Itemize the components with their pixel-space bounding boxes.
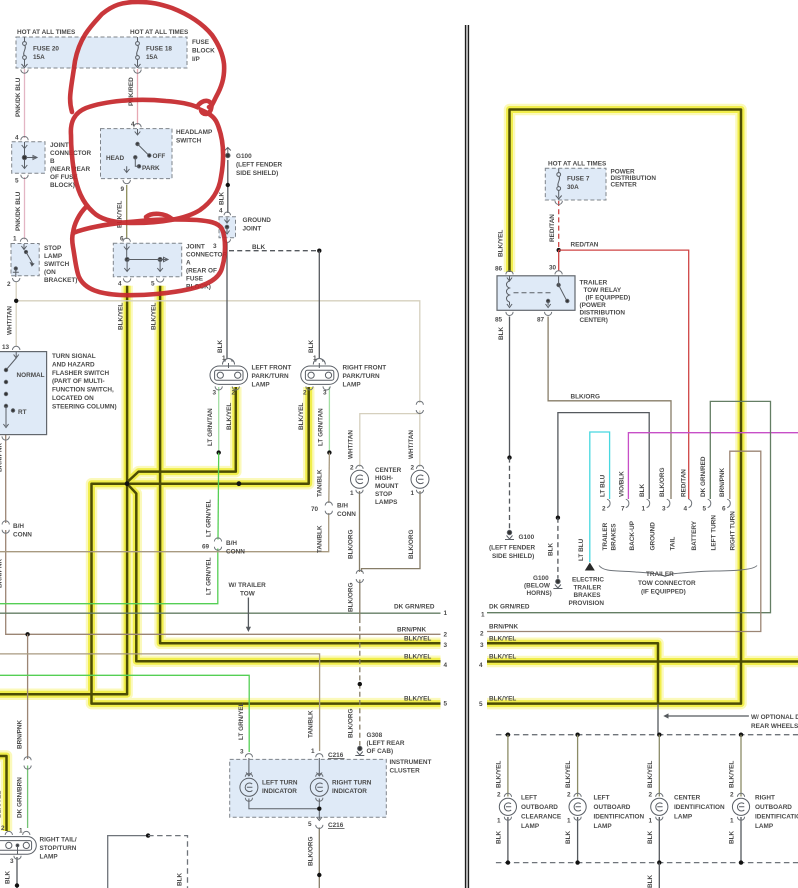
node bus taps	[506, 733, 510, 737]
wire PNK/RED fuse18 to headlamp switch	[137, 69, 139, 125]
svg-text:DK GRN/RED: DK GRN/RED	[394, 604, 435, 611]
svg-text:LAMP: LAMP	[674, 814, 693, 821]
wire tail lamp feed	[0, 756, 7, 831]
svg-text:LEFT: LEFT	[521, 795, 537, 802]
center high mount stop lamp left	[351, 465, 369, 493]
node RED/TAN junction	[557, 248, 561, 252]
svg-text:HEADLAMP: HEADLAMP	[176, 129, 213, 136]
svg-text:(NEAR REAR: (NEAR REAR	[50, 166, 91, 173]
svg-text:CONN: CONN	[13, 532, 32, 539]
svg-text:5: 5	[479, 701, 483, 708]
wire WHT/TAN stop lamp switch to turn signal switch	[15, 282, 17, 347]
svg-text:C216: C216	[328, 822, 344, 829]
wire BLK below marker lamps	[507, 817, 509, 863]
wire lamp bus bottom dashed	[496, 862, 798, 864]
svg-text:OUTBOARD: OUTBOARD	[521, 804, 558, 811]
fuse block I/P box	[16, 37, 187, 68]
svg-text:1: 1	[444, 610, 448, 617]
svg-text:LT GRN/TAN: LT GRN/TAN	[318, 408, 325, 446]
svg-text:INDICATOR: INDICATOR	[262, 788, 297, 795]
pin arc tail pin1	[23, 831, 30, 835]
svg-text:RED/TAN: RED/TAN	[549, 214, 556, 242]
svg-text:1: 1	[222, 355, 226, 362]
node	[556, 516, 560, 520]
svg-text:BLK: BLK	[548, 542, 555, 556]
red connector stroke down-left	[73, 207, 86, 233]
svg-text:AND HAZARD: AND HAZARD	[52, 361, 95, 368]
wire BLK dashed to G100 below horns	[557, 518, 559, 579]
wire BLK/ORG right CHMSL down and left	[362, 491, 421, 572]
svg-text:FUSE 20: FUSE 20	[33, 46, 59, 53]
G308 ground symbol	[355, 746, 364, 755]
svg-text:5: 5	[15, 178, 19, 185]
pin arc relay 85	[506, 312, 513, 316]
wire BLK dashed branch to right park lamp	[229, 250, 319, 252]
svg-text:PNK/DK BLU: PNK/DK BLU	[15, 77, 22, 117]
svg-text:LEFT TURN: LEFT TURN	[711, 515, 718, 551]
conn BLK/ORG inline	[356, 570, 363, 582]
svg-text:2: 2	[232, 390, 236, 397]
svg-text:LAMP: LAMP	[44, 253, 63, 260]
wire BLK trailer ground pin1	[558, 413, 649, 518]
svg-text:LAMPS: LAMPS	[375, 499, 398, 506]
svg-text:TAIL: TAIL	[670, 537, 677, 551]
node	[226, 183, 230, 187]
svg-text:LT BLU: LT BLU	[600, 474, 607, 497]
svg-text:FUSE: FUSE	[192, 39, 210, 46]
svg-text:SIDE SHIELD): SIDE SHIELD)	[236, 170, 278, 177]
svg-text:STOP: STOP	[44, 245, 62, 252]
svg-text:4: 4	[118, 281, 122, 288]
B/H conn 70	[325, 502, 332, 514]
svg-text:OFF: OFF	[153, 153, 166, 160]
wire LT GRN/TAN left park lamp pin3	[218, 387, 220, 453]
svg-text:3: 3	[662, 506, 666, 513]
svg-text:30: 30	[549, 265, 557, 272]
svg-text:CONN: CONN	[226, 548, 245, 555]
pin arc tail pin2	[5, 831, 12, 835]
wire BLK bottom left hook solid	[108, 836, 148, 888]
wire BLK/ORG left CHMSL down	[359, 491, 361, 572]
svg-text:RIGHT: RIGHT	[755, 795, 775, 802]
pin arc stop lamp top	[20, 238, 27, 242]
node bus taps bottom	[506, 860, 510, 864]
svg-text:RED/TAN: RED/TAN	[681, 469, 688, 497]
svg-text:STEERING COLUMN): STEERING COLUMN)	[52, 403, 117, 410]
svg-text:1: 1	[497, 818, 501, 825]
wire row3 right down to lamp bus	[487, 643, 658, 704]
svg-text:BLK/YEL: BLK/YEL	[226, 403, 233, 430]
svg-text:BLK/YEL: BLK/YEL	[404, 654, 431, 661]
svg-text:HORNS): HORNS)	[527, 590, 552, 597]
svg-text:BLK: BLK	[5, 870, 12, 884]
pin arc turn signal bottom	[2, 436, 9, 440]
svg-text:1: 1	[19, 828, 23, 835]
svg-text:3: 3	[240, 749, 244, 756]
wire BLK ground joint to left park lamp pin1	[226, 242, 228, 361]
wire RED/TAN to relay pin30	[558, 250, 560, 271]
svg-text:CENTER): CENTER)	[580, 317, 608, 324]
pin arc RF lamp pin1	[316, 358, 323, 362]
svg-text:(LEFT FENDER: (LEFT FENDER	[489, 545, 536, 552]
node	[507, 455, 511, 459]
svg-text:5: 5	[444, 701, 448, 708]
svg-text:FUSE: FUSE	[186, 276, 204, 283]
wire DK GRN/BRN to tail lamp pin1	[27, 766, 29, 829]
svg-text:G100: G100	[236, 153, 252, 160]
svg-text:BLK/ORG: BLK/ORG	[408, 530, 415, 559]
svg-text:TOW: TOW	[240, 590, 256, 597]
svg-text:NORMAL: NORMAL	[17, 372, 45, 379]
right tail/stop/turn lamp	[0, 837, 36, 855]
svg-text:IDENTIFICATION: IDENTIFICATION	[674, 804, 725, 811]
svg-text:(LEFT FENDER: (LEFT FENDER	[236, 161, 283, 168]
svg-text:IDENTIFICATIO: IDENTIFICATIO	[755, 814, 798, 821]
svg-text:BLK/ORG: BLK/ORG	[308, 837, 315, 866]
wire BLK/YEL thin stub row3 to lamp bus	[657, 704, 659, 735]
pin arc cluster pin5	[316, 825, 323, 829]
svg-text:BRN/PNK: BRN/PNK	[719, 468, 726, 497]
marker lamp left outboard clearance	[499, 793, 516, 820]
svg-text:BLK/YEL: BLK/YEL	[404, 636, 431, 643]
svg-text:BLK: BLK	[308, 339, 315, 353]
svg-text:BLK/YEL: BLK/YEL	[151, 303, 158, 330]
svg-text:RT: RT	[18, 409, 27, 416]
svg-text:LT GRN/TAN: LT GRN/TAN	[207, 408, 214, 446]
svg-text:TOW CONNECTOR: TOW CONNECTOR	[638, 580, 696, 587]
svg-text:(BELOW: (BELOW	[524, 583, 551, 590]
node cluster junction	[317, 807, 321, 811]
node splice	[217, 450, 221, 454]
pin arc turn signal top pin13	[13, 346, 20, 350]
node splice	[327, 450, 331, 454]
svg-text:BLK: BLK	[647, 874, 654, 888]
svg-text:BLOCK): BLOCK)	[50, 182, 75, 189]
svg-text:WHT/TAN: WHT/TAN	[408, 430, 415, 459]
svg-text:B/H: B/H	[337, 503, 348, 510]
svg-text:3: 3	[480, 642, 484, 649]
svg-text:INDICATOR: INDICATOR	[332, 788, 367, 795]
pin arc JC-A bottom pin5	[156, 278, 163, 282]
wire VIO/BLK back-up	[628, 433, 798, 499]
pin arc headlamp bottom pin9	[123, 180, 130, 184]
svg-text:2: 2	[649, 792, 653, 799]
wire LT BLU trailer brakes	[590, 432, 610, 562]
G100 below horns ground	[553, 579, 562, 588]
wire BLK down to right park lamp pin1	[318, 251, 320, 361]
svg-text:6: 6	[120, 236, 124, 243]
conn tail lamp inline	[24, 757, 31, 769]
svg-text:G308: G308	[367, 732, 383, 739]
svg-text:BLK/ORG: BLK/ORG	[571, 394, 600, 401]
pin arc relay 87	[545, 312, 552, 316]
wire TAN/BLK to instrument cluster pin1	[0, 654, 320, 751]
left turn indicator lamp	[240, 758, 319, 809]
svg-text:FLASHER SWITCH: FLASHER SWITCH	[52, 370, 110, 377]
wire BLK/ORG below conn to row1 then dashed to G308	[359, 580, 361, 619]
node	[15, 883, 19, 887]
svg-text:1: 1	[642, 506, 646, 513]
svg-text:STOP/TURN: STOP/TURN	[40, 845, 77, 852]
svg-text:BLK/YEL: BLK/YEL	[496, 761, 503, 788]
red loop middle around headlamp switch	[71, 100, 223, 223]
svg-text:LT GRN/YEL: LT GRN/YEL	[238, 702, 245, 740]
svg-text:85: 85	[495, 317, 503, 324]
svg-text:TAN/BLK: TAN/BLK	[317, 469, 324, 497]
svg-text:IDENTIFICATION: IDENTIFICATION	[594, 814, 645, 821]
svg-text:CONN: CONN	[337, 511, 356, 518]
fuse F18	[135, 37, 141, 68]
svg-text:PARK/TURN: PARK/TURN	[252, 373, 290, 380]
svg-text:2: 2	[303, 390, 307, 397]
svg-text:1: 1	[311, 748, 315, 755]
svg-text:LAMP: LAMP	[521, 823, 540, 830]
svg-text:1: 1	[350, 490, 354, 497]
svg-text:LT BLU: LT BLU	[578, 538, 585, 561]
svg-text:BLK/YEL: BLK/YEL	[489, 696, 516, 703]
svg-text:PARK: PARK	[142, 165, 160, 172]
svg-text:3: 3	[213, 390, 217, 397]
wire relay pin86 loop / row5 right	[487, 110, 741, 704]
node BLK junction	[317, 249, 321, 253]
pin arc PDC out	[555, 201, 562, 205]
svg-text:1: 1	[567, 818, 571, 825]
svg-text:2: 2	[480, 631, 484, 638]
svg-text:DK GRN/RED: DK GRN/RED	[489, 604, 530, 611]
pin arc cluster pin1	[316, 754, 323, 758]
wire BLK/ORG relay pin87 to tail pin3	[548, 317, 671, 500]
svg-text:BATTERY: BATTERY	[691, 520, 698, 550]
svg-text:BLK: BLK	[639, 483, 646, 497]
node	[146, 833, 150, 837]
pin arc JC-B bottom	[21, 175, 28, 179]
svg-text:HOT AT ALL TIMES: HOT AT ALL TIMES	[130, 29, 189, 36]
svg-text:SWITCH: SWITCH	[176, 137, 202, 144]
svg-text:69: 69	[202, 544, 210, 551]
svg-text:RED/TAN: RED/TAN	[571, 242, 599, 249]
svg-text:BLK/ORG: BLK/ORG	[348, 709, 355, 738]
svg-text:HIGH-: HIGH-	[375, 475, 393, 482]
svg-text:DK GRN/BRN: DK GRN/BRN	[17, 777, 24, 818]
wire branch to row4 left	[127, 484, 440, 662]
turn signal switch box	[0, 352, 47, 435]
fuse F20	[22, 37, 28, 68]
wire BRN/PNK right turn / row2 right	[487, 451, 761, 631]
svg-text:A: A	[186, 260, 191, 267]
svg-text:LT GRN/YEL: LT GRN/YEL	[206, 557, 213, 595]
wire BLK dashed to G100 left fender	[509, 458, 511, 529]
svg-text:TAN/BLK: TAN/BLK	[308, 710, 315, 738]
node BRN/PNK row2 junction	[25, 632, 29, 636]
svg-text:MOUNT: MOUNT	[375, 483, 399, 490]
svg-text:BLK/YEL: BLK/YEL	[729, 761, 736, 788]
wire BLK/YEL headlamp pin9 to joint connector A pin6	[126, 185, 128, 239]
svg-text:2: 2	[497, 792, 501, 799]
wire BLK/YEL drops to marker lamps	[507, 735, 509, 797]
stop lamp switch box	[11, 244, 39, 276]
ground joint box	[219, 217, 236, 238]
wire right front park lamp feed / H1 / V1 / row5 left	[92, 387, 441, 704]
fuse F7	[556, 169, 562, 200]
svg-text:GROUND: GROUND	[650, 522, 657, 551]
svg-text:I/P: I/P	[192, 56, 201, 63]
pin arc LF lamp pin3	[215, 386, 222, 390]
svg-text:4: 4	[131, 121, 135, 128]
svg-text:TURN SIGNAL: TURN SIGNAL	[52, 353, 96, 360]
joint connector A box	[113, 243, 181, 276]
svg-text:BLK/YEL: BLK/YEL	[0, 791, 3, 818]
svg-text:TRAILER: TRAILER	[574, 584, 602, 591]
svg-text:1: 1	[313, 355, 317, 362]
svg-text:LEFT: LEFT	[594, 795, 610, 802]
svg-text:LEFT TURN: LEFT TURN	[262, 780, 298, 787]
svg-text:3: 3	[213, 243, 217, 250]
svg-text:BLK/YEL: BLK/YEL	[498, 230, 505, 257]
pin arc JC-A bottom pin4	[123, 278, 130, 282]
svg-text:BLK/ORG: BLK/ORG	[659, 468, 666, 497]
svg-text:LT GRN/YEL: LT GRN/YEL	[206, 499, 213, 537]
svg-text:2: 2	[350, 465, 354, 472]
svg-text:LAMP: LAMP	[755, 823, 774, 830]
svg-text:BLK/YEL: BLK/YEL	[298, 403, 305, 430]
marker lamp right outboard identification	[732, 793, 749, 820]
svg-text:2: 2	[411, 465, 415, 472]
svg-text:PNK/DK BLU: PNK/DK BLU	[15, 191, 22, 231]
svg-text:15A: 15A	[33, 54, 45, 61]
wire instrument cluster pin5 BLK/ORG down	[318, 828, 320, 888]
pin arc tail pin3	[14, 856, 21, 860]
right front park/turn lamp	[301, 359, 339, 385]
svg-text:TRAILER: TRAILER	[646, 571, 674, 578]
svg-text:BLK: BLK	[219, 191, 226, 205]
joint connector B box	[12, 142, 45, 174]
svg-text:3: 3	[10, 858, 14, 865]
svg-text:WHT/TAN: WHT/TAN	[7, 306, 14, 335]
wire BLK G100 to ground joint pin4	[227, 160, 229, 213]
svg-text:TRAILER: TRAILER	[580, 280, 608, 287]
svg-text:TOW RELAY: TOW RELAY	[584, 287, 622, 294]
svg-text:4: 4	[444, 662, 448, 669]
svg-text:LAMP: LAMP	[594, 823, 613, 830]
svg-text:BRN/PNK: BRN/PNK	[489, 624, 518, 631]
svg-text:7: 7	[621, 506, 625, 513]
svg-text:RIGHT TURN: RIGHT TURN	[332, 780, 372, 787]
svg-text:TRAILER: TRAILER	[602, 522, 609, 550]
trailer tow connector brace	[599, 566, 757, 577]
trailer tow relay box	[497, 276, 575, 311]
wire W/TRAILER TOW pointer	[247, 598, 249, 629]
svg-text:BLK/ORG: BLK/ORG	[347, 583, 354, 612]
red cusp tail	[146, 214, 172, 219]
svg-text:RIGHT FRONT: RIGHT FRONT	[343, 365, 387, 372]
wire left front park lamp feed	[127, 387, 235, 482]
svg-text:2: 2	[602, 506, 606, 513]
wire BLK dashed hook	[148, 836, 187, 888]
svg-text:BRN/PNK: BRN/PNK	[17, 720, 24, 749]
wire PNK/DK BLU joint connector B to stop lamp switch	[24, 177, 26, 240]
svg-text:5: 5	[151, 281, 155, 288]
wire row4 right	[487, 660, 798, 663]
svg-text:(PART OF MULTI-: (PART OF MULTI-	[52, 378, 105, 385]
svg-text:3: 3	[323, 390, 327, 397]
svg-text:FUSE 18: FUSE 18	[146, 46, 172, 53]
red loop big top	[70, 2, 224, 112]
svg-text:DISTRIBUTION: DISTRIBUTION	[580, 310, 626, 317]
svg-text:OUTBOARD: OUTBOARD	[755, 804, 792, 811]
svg-text:2: 2	[1, 825, 5, 832]
svg-text:(REAR OF: (REAR OF	[186, 268, 217, 275]
svg-text:BLK: BLK	[252, 244, 266, 251]
svg-text:CLUSTER: CLUSTER	[390, 767, 421, 774]
svg-text:2: 2	[7, 281, 11, 288]
svg-text:70: 70	[311, 506, 319, 513]
pin arc JC-A top pin6	[123, 238, 130, 242]
node	[317, 873, 321, 877]
marker lamp left outboard identification	[569, 793, 586, 820]
svg-text:CONNECTOR: CONNECTOR	[186, 252, 227, 259]
svg-text:(LEFT REAR: (LEFT REAR	[367, 740, 405, 747]
svg-text:1: 1	[481, 612, 485, 619]
pin arc LF lamp pin1	[225, 358, 232, 362]
svg-text:BLK/YEL: BLK/YEL	[647, 761, 654, 788]
svg-text:PROVISION: PROVISION	[569, 600, 605, 607]
wire BLK relay pin85 down	[509, 317, 511, 458]
svg-text:BLK/YEL: BLK/YEL	[118, 303, 125, 330]
right turn indicator lamp	[310, 758, 328, 821]
svg-text:(POWER: (POWER	[580, 302, 607, 309]
svg-text:SIDE SHIELD): SIDE SHIELD)	[492, 553, 534, 560]
svg-text:BLK: BLK	[498, 326, 505, 340]
svg-text:RIGHT TAIL/: RIGHT TAIL/	[40, 837, 77, 844]
divider double rule	[465, 25, 467, 888]
pin arc fuse18 out	[134, 70, 141, 74]
svg-text:BRN/PNK: BRN/PNK	[0, 443, 4, 472]
svg-text:PARK/TURN: PARK/TURN	[343, 373, 381, 380]
svg-text:RIGHT TURN: RIGHT TURN	[730, 511, 737, 551]
svg-text:LAMP: LAMP	[343, 381, 362, 388]
wire joint connector A pin4 down / to left edge	[0, 286, 127, 695]
pin arc JC-B top	[21, 136, 28, 140]
conn BRN/PNK inline	[2, 521, 9, 533]
pin arc RF lamp pin3	[323, 386, 330, 390]
svg-text:4: 4	[219, 208, 223, 215]
wire DK GRN/RED left turn / row1 right	[487, 401, 771, 612]
svg-text:1: 1	[13, 236, 17, 243]
svg-text:5: 5	[308, 821, 312, 828]
svg-text:BLK/YEL: BLK/YEL	[404, 696, 431, 703]
svg-text:CENTER: CENTER	[674, 795, 701, 802]
pin arc ground joint top pin4	[224, 212, 230, 215]
svg-text:JOINT: JOINT	[243, 225, 262, 232]
svg-text:SWITCH: SWITCH	[44, 261, 70, 268]
wire TAN/BLK down through B/H conn 70 then left	[328, 453, 331, 503]
svg-text:1: 1	[649, 818, 653, 825]
svg-text:CENTER: CENTER	[375, 467, 402, 474]
svg-text:BLK/YEL: BLK/YEL	[489, 636, 516, 643]
svg-text:CLEARANCE: CLEARANCE	[521, 814, 562, 821]
wire BRN/PNK turn signal switch down	[5, 435, 7, 523]
wire LT GRN/YEL down through B/H conn 69 to left edge	[217, 453, 220, 540]
svg-text:(IF EQUIPPED): (IF EQUIPPED)	[641, 589, 686, 596]
svg-text:BLK: BLK	[729, 830, 736, 844]
node yellow junction dots	[125, 481, 130, 486]
svg-text:BLOCK: BLOCK	[192, 48, 215, 55]
svg-text:BLK: BLK	[565, 830, 572, 844]
wire lamp bus top dashed	[496, 734, 798, 736]
node WHT/TAN junction	[14, 299, 18, 303]
G100 left fender right half ground	[505, 530, 514, 539]
svg-text:FUSE 7: FUSE 7	[567, 176, 590, 183]
